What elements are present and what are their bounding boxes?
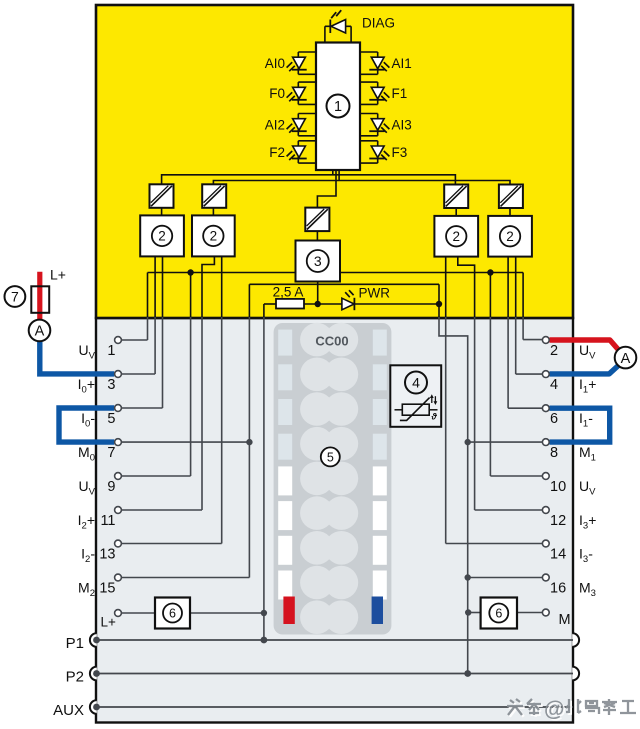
svg-text:6: 6 [495, 607, 502, 621]
svg-text:ϑ: ϑ [431, 412, 438, 422]
svg-text:2: 2 [506, 229, 514, 244]
svg-text:4: 4 [550, 377, 558, 393]
svg-text:6: 6 [169, 607, 176, 621]
svg-text:16: 16 [550, 581, 566, 597]
svg-text:L+: L+ [50, 267, 66, 283]
svg-text:7: 7 [11, 289, 19, 305]
svg-text:P2: P2 [66, 668, 84, 685]
svg-text:@: @ [544, 698, 564, 721]
svg-text:F0: F0 [269, 86, 285, 101]
svg-text:3: 3 [314, 253, 322, 269]
svg-text:2: 2 [210, 229, 218, 244]
svg-text:P1: P1 [66, 635, 84, 652]
svg-text:3: 3 [107, 377, 115, 393]
svg-text:5: 5 [107, 411, 115, 427]
svg-text:AI0: AI0 [265, 56, 285, 71]
svg-text:F2: F2 [269, 145, 285, 160]
svg-text:AUX: AUX [53, 702, 84, 719]
svg-text:5: 5 [327, 451, 334, 465]
svg-text:2: 2 [158, 229, 166, 244]
svg-text:7: 7 [107, 445, 115, 461]
svg-text:F1: F1 [392, 86, 408, 101]
svg-text:6: 6 [550, 411, 558, 427]
svg-text:13: 13 [99, 547, 115, 563]
svg-text:8: 8 [550, 445, 558, 461]
svg-text:L+: L+ [101, 615, 117, 630]
svg-text:DIAG: DIAG [362, 16, 395, 31]
svg-text:A: A [35, 324, 45, 340]
svg-text:2: 2 [452, 229, 460, 244]
svg-text:4: 4 [412, 375, 420, 391]
svg-text:PWR: PWR [359, 286, 391, 301]
svg-text:1: 1 [334, 99, 342, 115]
svg-text:F3: F3 [392, 145, 408, 160]
svg-text:2: 2 [550, 343, 558, 359]
svg-text:AI3: AI3 [392, 118, 412, 133]
svg-text:11: 11 [100, 513, 115, 529]
svg-text:1: 1 [107, 343, 115, 359]
svg-text:CC00: CC00 [315, 334, 348, 349]
svg-text:M: M [559, 612, 571, 628]
svg-text:AI1: AI1 [392, 56, 412, 71]
svg-text:9: 9 [107, 479, 115, 495]
svg-text:12: 12 [550, 513, 566, 529]
svg-text:A: A [621, 351, 631, 367]
svg-text:AI2: AI2 [265, 118, 285, 133]
svg-text:2,5 A: 2,5 A [273, 285, 304, 300]
svg-text:15: 15 [99, 581, 115, 597]
svg-text:14: 14 [550, 547, 566, 563]
svg-text:10: 10 [550, 479, 566, 495]
